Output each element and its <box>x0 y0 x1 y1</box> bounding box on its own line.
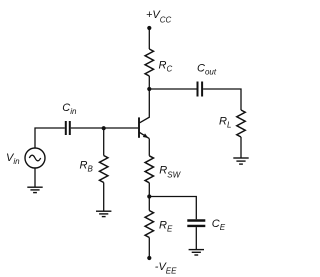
ground (RB) <box>96 211 111 216</box>
wire emitter node to CE <box>149 197 196 220</box>
wire RB to ground <box>103 183 105 212</box>
node emitter junction dot <box>147 194 151 198</box>
resistor RC <box>145 49 153 76</box>
wire RSW to emitter node <box>148 183 150 197</box>
wire emitter node to RE <box>148 197 150 211</box>
wire VCC to RC <box>148 28 150 49</box>
resistor RL <box>237 110 245 137</box>
node collector junction dot <box>147 87 151 91</box>
node +VCC terminal dot <box>147 26 151 30</box>
wire Cin to base <box>71 127 138 129</box>
resistor RE <box>145 211 153 238</box>
transistor Q1 collector lead <box>140 89 150 123</box>
capacitor Cout <box>198 82 203 97</box>
resistor RB <box>99 156 107 183</box>
source Vin (AC) <box>25 148 45 168</box>
wire Vin to ground <box>34 168 36 187</box>
wire base node to RB <box>103 128 105 155</box>
transistor Q1 base bar <box>138 117 140 137</box>
ground (CE) <box>189 250 204 255</box>
ground (Vin) <box>27 187 42 192</box>
ground (RL) <box>233 158 248 164</box>
capacitor Cin <box>66 121 70 135</box>
wire collector node to Cout <box>149 88 196 90</box>
node base junction dot <box>102 126 106 130</box>
transistor Q1 emitter lead <box>140 132 150 138</box>
transistor Q1 emitter arrow <box>143 133 149 138</box>
wire RL to ground <box>240 137 242 158</box>
wire Cout to RL <box>203 89 241 110</box>
resistor RSW <box>145 156 153 183</box>
wire CE to ground <box>195 227 197 250</box>
wire RC to collector node <box>148 76 150 89</box>
wire RE to -VEE <box>148 238 150 259</box>
node -VEE terminal dot <box>147 256 151 260</box>
capacitor CE <box>187 221 205 226</box>
wire Vin to input node <box>35 128 65 148</box>
wire emitter to RSW <box>148 139 150 156</box>
